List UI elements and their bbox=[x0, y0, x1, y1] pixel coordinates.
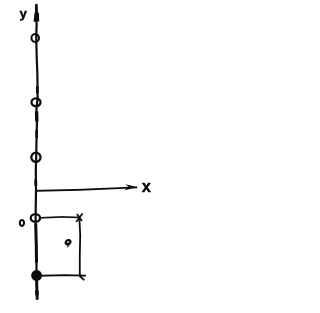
charge -Q (filled circle) bbox=[32, 271, 42, 281]
bracket top wire bbox=[41, 216, 80, 219]
charge Q2 circle bbox=[32, 98, 41, 106]
bracket bottom tick bbox=[80, 276, 85, 280]
x-axis wire bbox=[36, 187, 137, 191]
y-axis wire bulge 1 bbox=[36, 87, 39, 93]
a label bbox=[63, 238, 74, 249]
y-axis arrowhead bbox=[34, 4, 40, 22]
bracket top tick bbox=[76, 213, 82, 222]
charge Q3 circle bbox=[31, 153, 40, 162]
y-axis thick segment tick bbox=[35, 113, 39, 121]
origin label 0 bbox=[20, 220, 24, 226]
y-axis wire bbox=[36, 8, 38, 275]
y-axis lower thick wire bbox=[36, 224, 38, 299]
bracket vertical wire bbox=[78, 219, 81, 275]
y-axis wire bulge 3 bbox=[34, 181, 37, 186]
svg-text:y: y bbox=[20, 6, 28, 21]
charge Q1 (top circle) bbox=[31, 34, 39, 42]
x-axis arrowhead bbox=[125, 184, 139, 190]
svg-text:x: x bbox=[142, 178, 152, 196]
bracket bottom wire bbox=[42, 274, 86, 277]
y-axis wire bulge 4 bbox=[35, 292, 39, 295]
y-axis wire bulge 2 bbox=[35, 131, 38, 137]
origin charge circle bbox=[31, 214, 40, 222]
